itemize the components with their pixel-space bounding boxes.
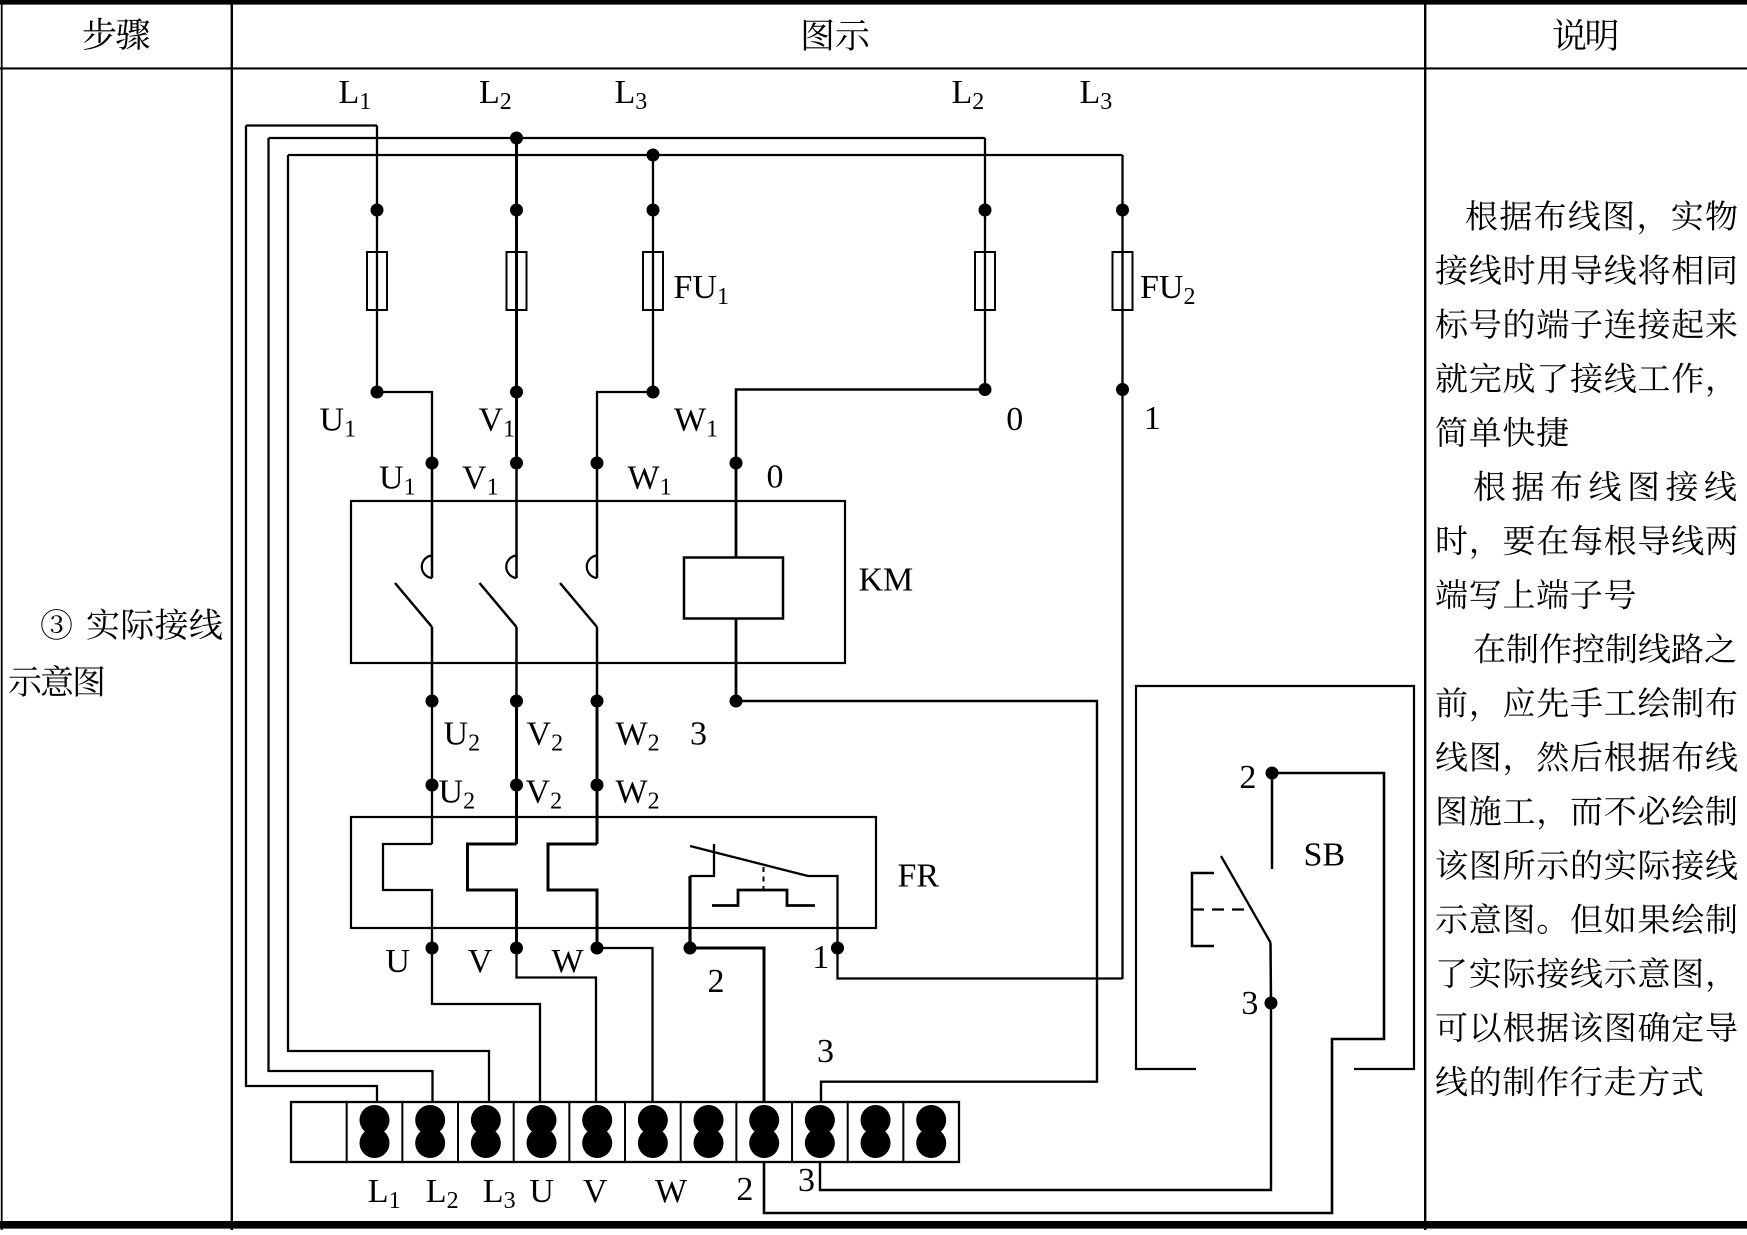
terminal strip divider 4 [513, 1102, 515, 1162]
KM main contact W lower lead [596, 627, 599, 701]
explanation line 5 [1436, 417, 1568, 447]
node FR W out [591, 942, 604, 955]
column divider 图示/说明 [1424, 0, 1426, 1230]
explanation line 14 [1436, 903, 1736, 934]
terminal 9 contact pair [749, 1105, 779, 1135]
row label ③ 实际接线 [41, 609, 71, 640]
svg-text:W1: W1 [674, 402, 718, 443]
svg-text:U1: U1 [379, 460, 416, 501]
KM main contact V arc [506, 556, 516, 579]
header cell 图示 [804, 19, 869, 51]
SB upper lead [1271, 773, 1274, 869]
fuse FU1 phase L2 [507, 252, 527, 310]
svg-text:FU2: FU2 [1140, 269, 1195, 310]
node SB 2 [1266, 767, 1279, 780]
svg-text:U2: U2 [444, 716, 481, 757]
explanation line 10 [1436, 687, 1736, 721]
KM main contact U arc [422, 556, 432, 579]
node FR V out [510, 942, 523, 955]
svg-text:U: U [529, 1173, 554, 1210]
KM main contact W blade [560, 583, 597, 627]
explanation line 17 [1436, 1066, 1702, 1097]
node L1 fuse top [371, 204, 384, 217]
node L3r fuse bottom [1116, 383, 1129, 396]
svg-text:1: 1 [1144, 400, 1161, 437]
column divider 步骤/图示 [231, 0, 233, 1230]
node FR 2 out [684, 942, 697, 955]
terminal strip divider 6 [624, 1102, 626, 1162]
explanation line 13 [1437, 849, 1738, 880]
FR heater V [468, 844, 517, 948]
wire L2 return loop [269, 138, 433, 1102]
svg-text:L3: L3 [1080, 74, 1113, 115]
svg-text:FR: FR [898, 858, 940, 895]
FR heater U [383, 844, 432, 948]
table bottom border [0, 1221, 1747, 1229]
table top border [0, 0, 1747, 5]
terminal strip divider 9 [791, 1102, 793, 1162]
fuse FU2 phase L2 [975, 252, 995, 310]
wire L2 bus [269, 137, 986, 139]
wire 2 FR to terminal [690, 948, 764, 1102]
node L3 bus junction [647, 149, 660, 162]
svg-text:V2: V2 [527, 716, 564, 757]
wire L2 right drop [984, 138, 986, 390]
FR test button [712, 890, 815, 906]
wire L1 bus [246, 124, 377, 126]
SB button cap bracket [1192, 873, 1214, 946]
KM coil upper lead [735, 463, 738, 558]
svg-text:L1: L1 [339, 74, 372, 115]
explanation line 4 [1436, 362, 1712, 396]
terminal 5 contact pair [527, 1105, 557, 1135]
node KM coil 3 [730, 695, 743, 708]
KM main contact W upper lead [596, 463, 599, 578]
KM main contact V lower lead [515, 627, 518, 701]
svg-text:W1: W1 [628, 460, 672, 501]
svg-text:KM: KM [859, 562, 914, 599]
KM main contact W arc [587, 556, 597, 579]
contactor KM enclosure [351, 501, 845, 663]
svg-text:W: W [552, 943, 585, 980]
terminal strip divider 2 [401, 1102, 403, 1162]
row label 示意图 [9, 665, 103, 697]
node KM V1 [510, 457, 523, 470]
FR heater W [548, 844, 597, 948]
fuse FU1 phase L1 [367, 252, 387, 310]
terminal strip divider 8 [735, 1102, 737, 1162]
node L2r fuse top [979, 204, 992, 217]
svg-text:3: 3 [1241, 985, 1258, 1022]
KM main contact U lower lead [431, 627, 434, 701]
wire V to terminal [517, 948, 597, 1102]
wire L2 drop [515, 138, 518, 463]
terminal 3 contact pair [415, 1105, 445, 1135]
svg-text:L1: L1 [368, 1173, 401, 1214]
svg-text:3: 3 [798, 1162, 815, 1199]
svg-text:L3: L3 [615, 74, 648, 115]
explanation line 9 [1474, 633, 1735, 663]
terminal 10 contact pair [805, 1105, 835, 1135]
row label 实际接线 [87, 608, 222, 639]
terminal strip XT [291, 1102, 959, 1162]
svg-text:2: 2 [736, 1171, 753, 1208]
svg-text:V1: V1 [462, 460, 499, 501]
terminal 11 contact pair [861, 1105, 891, 1135]
wire 2 terminal to SB [764, 773, 1384, 1213]
KM coil [684, 558, 783, 619]
FR NC contact actuator dashed link [763, 867, 765, 890]
explanation line 1 [1466, 200, 1737, 234]
terminal strip divider 3 [457, 1102, 459, 1162]
FR NC contact left lead [688, 876, 691, 948]
explanation line 8 [1436, 579, 1635, 609]
header cell 步骤 [83, 18, 149, 50]
node L2 fuse top [510, 204, 523, 217]
svg-text:W2: W2 [616, 716, 660, 757]
node L3 fuse top [647, 204, 660, 217]
wire U to terminal [432, 948, 540, 1102]
thermal relay FR enclosure [351, 817, 876, 928]
SB lower lead [1269, 943, 1272, 1004]
svg-text:L2: L2 [479, 74, 512, 115]
wire 3 terminal to SB [820, 1003, 1271, 1190]
node FR U2 [426, 779, 439, 792]
wire 0 jog [736, 390, 985, 464]
svg-text:U1: U1 [320, 402, 357, 443]
node SB 3 [1265, 997, 1278, 1010]
node L1 fuse bottom [371, 386, 384, 399]
wire V2 KM-FR [515, 701, 518, 844]
SB actuator dashed link [1192, 908, 1250, 910]
FR NC contact right lead [808, 876, 838, 948]
terminal 7 contact pair [638, 1105, 668, 1135]
node KM U1 [426, 457, 439, 470]
svg-text:V: V [583, 1173, 608, 1210]
FR NC contact left bracket [690, 844, 714, 876]
svg-text:2: 2 [708, 963, 725, 1000]
wire W1 jog [597, 392, 653, 463]
fuse FU2 phase L3 [1113, 252, 1133, 310]
terminal 4 contact pair [471, 1105, 501, 1135]
svg-text:2: 2 [1239, 759, 1256, 796]
svg-text:SB: SB [1304, 837, 1346, 874]
wire L1 drop [376, 126, 378, 393]
wire L3 return loop [288, 155, 489, 1102]
svg-text:3: 3 [690, 716, 707, 753]
explanation line 16 [1436, 1012, 1736, 1043]
explanation line 6 [1474, 471, 1736, 501]
terminal strip divider 1 [346, 1102, 348, 1162]
svg-text:V2: V2 [526, 774, 563, 815]
terminal 6 contact pair [582, 1105, 612, 1135]
wire 3 KM coil to strip [736, 701, 1097, 1102]
terminal strip divider 11 [902, 1102, 904, 1162]
wire L3 right drop (control 1) [1121, 155, 1123, 979]
svg-text:0: 0 [767, 459, 784, 496]
svg-text:V: V [468, 943, 493, 980]
explanation line 3 [1436, 308, 1737, 338]
svg-text:L2: L2 [952, 74, 985, 115]
svg-text:3: 3 [817, 1033, 834, 1070]
wire L3 bus [288, 154, 1123, 156]
svg-text:U2: U2 [439, 774, 476, 815]
svg-text:U: U [385, 943, 410, 980]
explanation line 7 [1438, 525, 1737, 559]
svg-text:W2: W2 [616, 774, 660, 815]
wire L1 return loop [246, 126, 377, 1103]
node L2 bus junction [510, 132, 523, 145]
wire L3 drop [652, 155, 654, 392]
svg-text:1: 1 [812, 939, 829, 976]
FR NC contact blade [690, 846, 808, 876]
pushbutton SB enclosure [1136, 686, 1414, 1069]
node KM U2 [426, 695, 439, 708]
KM main contact V upper lead [515, 463, 518, 578]
node KM W1 [591, 457, 604, 470]
explanation line 11 [1436, 741, 1737, 775]
terminal 8 contact pair [694, 1105, 724, 1135]
explanation line 12 [1439, 795, 1737, 829]
node L2r fuse bottom [979, 383, 992, 396]
explanation line 15 [1439, 957, 1713, 991]
svg-text:V1: V1 [479, 402, 516, 443]
wire U2 KM-FR [431, 701, 433, 844]
KM coil lower lead [735, 619, 738, 702]
node L3r fuse top [1116, 204, 1129, 217]
svg-text:FU1: FU1 [674, 269, 729, 310]
node KM 0 [730, 457, 743, 470]
terminal strip divider 10 [847, 1102, 849, 1162]
wire 1 FR to FU2 [838, 948, 1123, 979]
terminal 12 contact pair [916, 1105, 946, 1135]
svg-text:L3: L3 [483, 1173, 516, 1214]
svg-text:0: 0 [1006, 401, 1023, 438]
node L2 fuse bottom [510, 386, 523, 399]
node KM V2 [510, 695, 523, 708]
terminal strip divider 7 [680, 1102, 682, 1162]
node L3 fuse bottom [647, 386, 660, 399]
SB blade [1221, 856, 1271, 943]
svg-text:W: W [655, 1173, 688, 1210]
terminal 2 contact pair [360, 1105, 390, 1135]
KM main contact U blade [395, 583, 432, 627]
header underline [0, 67, 1747, 69]
wire U1 jog [377, 392, 432, 463]
terminal strip divider 5 [568, 1102, 570, 1162]
header cell 说明 [1553, 19, 1617, 51]
explanation line 2 [1436, 254, 1736, 284]
node KM W2 [591, 695, 604, 708]
svg-text:L2: L2 [426, 1173, 459, 1214]
table left border [1, 0, 3, 1230]
wire W2 KM-FR [596, 701, 599, 844]
KM main contact V blade [480, 583, 517, 627]
node FR W2 [591, 779, 604, 792]
wire W to terminal [597, 948, 653, 1102]
node FR V2 [510, 779, 523, 792]
node FR 1 out [831, 942, 844, 955]
KM main contact U upper lead [431, 463, 434, 578]
fuse FU1 phase L3 [643, 252, 663, 310]
node FR U out [426, 942, 439, 955]
